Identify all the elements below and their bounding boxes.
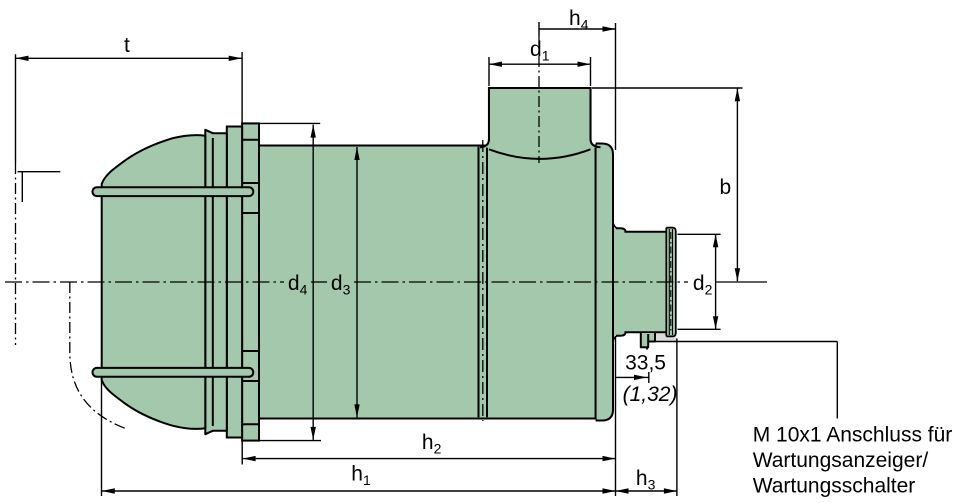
svg-text:t: t [124,34,130,57]
svg-text:(1,32): (1,32) [623,383,678,406]
svg-text:Wartungsschalter: Wartungsschalter [753,475,916,498]
svg-text:33,5: 33,5 [625,352,666,375]
svg-text:Wartungsanzeiger/: Wartungsanzeiger/ [753,449,929,472]
svg-text:b: b [720,176,732,199]
svg-text:M 10x1 Anschluss für: M 10x1 Anschluss für [753,424,953,447]
